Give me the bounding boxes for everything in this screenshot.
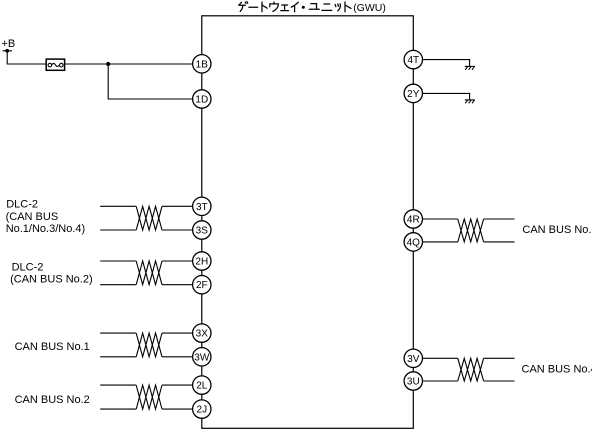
svg-text:CAN BUS No.2: CAN BUS No.2 [15,394,90,406]
svg-text:3T: 3T [196,202,208,213]
svg-text:2L: 2L [196,381,208,392]
svg-text:4Q: 4Q [407,237,421,248]
svg-text:3W: 3W [194,352,210,363]
svg-text:+B: +B [2,38,16,50]
svg-text:4T: 4T [407,55,419,66]
svg-text:2Y: 2Y [407,89,420,100]
svg-text:3V: 3V [407,354,420,365]
svg-text:2F: 2F [196,280,208,291]
svg-text:3U: 3U [407,377,420,388]
svg-text:2J: 2J [197,405,208,416]
svg-text:2H: 2H [195,257,208,268]
svg-text:4R: 4R [407,215,420,226]
svg-text:CAN BUS No.4: CAN BUS No.4 [522,363,592,375]
svg-text:3X: 3X [196,329,209,340]
svg-text:(CAN BUS No.2): (CAN BUS No.2) [10,274,93,286]
svg-text:3S: 3S [196,226,209,237]
svg-text:No.1/No.3/No.4): No.1/No.3/No.4) [6,223,85,235]
svg-text:DLC-2: DLC-2 [6,199,38,211]
svg-text:(GWU): (GWU) [353,2,386,14]
svg-text:1D: 1D [195,95,208,106]
svg-text:DLC-2: DLC-2 [12,261,44,273]
svg-text:(CAN BUS: (CAN BUS [6,211,59,223]
svg-text:1B: 1B [196,59,209,70]
svg-text:CAN BUS No.1: CAN BUS No.1 [15,341,90,353]
svg-text:CAN BUS No.3: CAN BUS No.3 [522,224,592,236]
